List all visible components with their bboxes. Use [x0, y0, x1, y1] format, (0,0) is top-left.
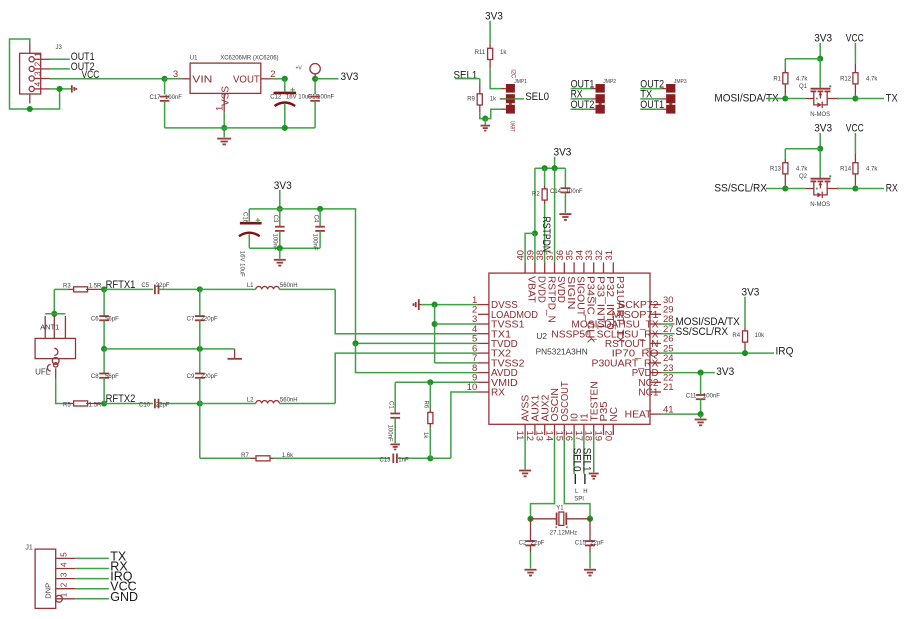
capacitor C3 100nF [279, 209, 281, 227]
junction SVDD drop [552, 165, 558, 171]
svg-text:L2: L2 [247, 397, 254, 403]
wire VCC from J3-3 to U1 VIN [50, 78, 165, 80]
junction C3 bottom [277, 245, 283, 251]
svg-text:1nF: 1nF [398, 457, 409, 463]
junction C10 right [197, 400, 203, 406]
capacitor C9 220pF [199, 349, 201, 374]
svg-text:14: 14 [544, 431, 555, 442]
ground mid row [234, 349, 236, 358]
svg-text:NC: NC [609, 407, 620, 421]
pin 37 SVDD [554, 262, 556, 273]
junction SEL1 pulldown [482, 116, 488, 122]
wire J3 pin4 to GND [50, 88, 72, 90]
svg-text:C9: C9 [187, 374, 195, 380]
svg-text:GND: GND [110, 590, 138, 604]
capacitor C11 100nF [700, 373, 702, 395]
junction crystal right [587, 516, 593, 522]
pin J1-4 RX [56, 568, 75, 570]
wire AVDD feed [356, 343, 479, 372]
wire R7 row left [200, 457, 250, 459]
jumper JMP1 [506, 84, 515, 114]
junction C3 top [277, 206, 283, 212]
svg-text:R12: R12 [840, 76, 852, 82]
svg-text:P31UART_TX: P31UART_TX [614, 276, 625, 343]
svg-text:3V3: 3V3 [341, 71, 359, 83]
svg-text:220pF: 220pF [201, 374, 218, 380]
svg-text:L1: L1 [247, 283, 254, 289]
svg-text:3: 3 [60, 572, 69, 577]
svg-text:16V 10uF: 16V 10uF [239, 251, 245, 277]
resistor R2 [544, 168, 546, 185]
svg-text:Q1: Q1 [799, 84, 808, 90]
wire RX to pin 10 [451, 392, 478, 458]
wire AVSS down [524, 435, 526, 469]
wire TX to JMP3-2 [640, 98, 662, 100]
svg-text:R9: R9 [467, 96, 475, 102]
pin 28 MOSISDAHSU_TX [650, 323, 661, 325]
svg-text:1k: 1k [490, 96, 497, 102]
svg-text:C12: C12 [270, 95, 282, 101]
svg-text:Q2: Q2 [799, 174, 808, 180]
junction crystal left [527, 516, 533, 522]
pin 30 SCKP72 [650, 304, 661, 306]
svg-text:3V3: 3V3 [274, 180, 292, 192]
svg-text:J3: J3 [56, 45, 63, 51]
svg-text:ANT1: ANT1 [40, 323, 59, 332]
svg-text:SVDD: SVDD [555, 276, 566, 303]
pin 9 VMID [478, 381, 489, 383]
svg-text:22pF: 22pF [156, 403, 170, 409]
svg-text:C17: C17 [149, 95, 161, 101]
svg-text:VBAT: VBAT [526, 276, 537, 303]
svg-text:3V3: 3V3 [716, 366, 734, 378]
svg-text:3V3: 3V3 [814, 33, 832, 45]
pin 5 TVDD [478, 342, 489, 344]
resistor R13 4.7k [784, 159, 786, 163]
wire 3V3 out [315, 78, 338, 80]
pin 10 RX [478, 391, 489, 393]
svg-text:R11: R11 [475, 50, 486, 56]
supply symbol 3V3 circle [310, 63, 320, 73]
wire OUT1 to JMP3-3 [640, 108, 662, 110]
wire RFTX1 to C5 [104, 288, 153, 290]
svg-text:100nF: 100nF [387, 425, 393, 442]
svg-text:P32_INT0: P32_INT0 [604, 276, 615, 330]
wire OUT1 to JMP2-1 [571, 88, 592, 90]
capacitor C8 56pF [103, 349, 105, 374]
junction left signal [782, 95, 788, 101]
pin 31 P31UART_TX [612, 262, 614, 273]
junction R2 top [542, 165, 548, 171]
ground TVSS (rotated) [418, 299, 420, 310]
svg-text:DNP: DNP [44, 583, 53, 599]
junction VMID [427, 379, 433, 385]
wire 3V3 down [554, 157, 556, 168]
svg-text:100nF: 100nF [566, 189, 583, 195]
svg-text:SPI: SPI [574, 496, 584, 502]
junction J3 pin4 [57, 86, 63, 92]
wire TX2 from L2 [335, 353, 478, 403]
svg-text:VCC: VCC [846, 33, 864, 45]
wire antenna top loop [53, 289, 55, 311]
wire signal across [785, 188, 806, 190]
wire HEAT pin 41 to ground [661, 413, 701, 415]
ground C15 [584, 569, 596, 571]
capacitor C10 22pF [154, 399, 156, 409]
svg-text:R2: R2 [532, 192, 540, 198]
junction VSS ground rail [221, 125, 227, 131]
junction left signal [782, 185, 788, 191]
resistor R1 4.7k [784, 69, 786, 73]
pin 39 DVDD [534, 262, 536, 273]
wire bottom rail [249, 247, 320, 249]
junction right signal [852, 185, 858, 191]
junction RX node bottom [427, 455, 433, 461]
resistor R12 4.7k [854, 63, 856, 72]
wire RFTX2 column down to R7 row [199, 404, 201, 459]
svg-text:RX: RX [886, 182, 898, 194]
svg-text:27.12MHz: 27.12MHz [550, 531, 577, 537]
svg-text:5: 5 [60, 552, 69, 557]
pin 12 AUX1 [534, 424, 536, 435]
pin 38 RSTPD_N [544, 262, 546, 273]
svg-text:C1: C1 [387, 401, 393, 409]
ground U1 VSS [223, 128, 225, 137]
svg-text:+V: +V [296, 65, 303, 71]
pin 36 SIGIN [563, 262, 565, 273]
pin 24 P30UART_RX [650, 362, 661, 364]
capacitor C12 16V 10uF electrolytic [284, 79, 286, 92]
svg-text:L: L [575, 489, 579, 495]
svg-text:1: 1 [34, 52, 43, 57]
svg-text:P33_INT1: P33_INT1 [594, 276, 605, 330]
svg-text:22pF: 22pF [531, 541, 545, 547]
wire SEL1 to R9 [455, 78, 480, 80]
svg-text:1.5R: 1.5R [89, 403, 102, 409]
svg-text:C10: C10 [139, 403, 151, 409]
resistor R11 1k [489, 44, 491, 48]
junction C5 right [197, 286, 203, 292]
wire OSCOUT to crystal [564, 435, 590, 519]
wire VMID corner to C1 [394, 382, 396, 413]
pin 32 P32_INT0 [603, 262, 605, 273]
capacitor C2 22pF [530, 519, 532, 541]
svg-text:SIGIN: SIGIN [565, 276, 576, 310]
svg-text:TX: TX [886, 92, 898, 104]
svg-text:UART: UART [509, 121, 516, 132]
IC U2 PN5321A3HN body [489, 273, 650, 424]
svg-text:UFL: UFL [35, 368, 51, 377]
junction mid row right [197, 346, 203, 352]
svg-text:C14: C14 [550, 189, 562, 195]
wire PVDD from pin 23 [661, 372, 715, 374]
resistor R7 1.6k [250, 457, 256, 459]
pin 14 OSCIN [554, 424, 556, 435]
wire OUT2 to JMP2-3 [571, 108, 592, 110]
wire 3V3 down to gate rail [819, 133, 821, 149]
pin J1-1 GND [56, 598, 75, 600]
wire OSCIN to crystal [531, 435, 555, 519]
svg-text:20: 20 [602, 431, 613, 442]
pin J1-5 TX [56, 557, 75, 559]
junction PVDD [698, 370, 704, 376]
svg-text:Y1: Y1 [556, 505, 564, 511]
svg-text:SEL0: SEL0 [525, 91, 549, 103]
svg-text:100nF: 100nF [703, 394, 720, 400]
wire TESTEN to ground [593, 435, 595, 472]
svg-text:100nF: 100nF [271, 234, 277, 251]
wire to TVSS2 [435, 362, 478, 364]
capacitor C1 100nF [390, 413, 400, 415]
svg-text:R4: R4 [732, 333, 740, 339]
svg-text:3: 3 [34, 71, 43, 76]
pin 8 AVDD [478, 372, 489, 374]
svg-text:SIGOUT: SIGOUT [575, 276, 586, 316]
resistor R14 4.7k [854, 153, 856, 162]
wire to L2 [200, 403, 256, 405]
ground R9 [484, 119, 486, 125]
svg-text:31: 31 [604, 250, 615, 261]
capacitor C7 220pF [199, 289, 201, 316]
pin 15 OSCOUT [563, 424, 565, 435]
junction RFTX1 [101, 286, 107, 292]
node MOSI/SDA/TX at pin 28 [661, 323, 675, 325]
transistor Q2 N-MOS [819, 149, 821, 178]
svg-text:C4: C4 [312, 215, 318, 223]
svg-text:J1: J1 [25, 545, 33, 552]
junction J3 bottom [27, 106, 33, 112]
svg-text:R3: R3 [63, 283, 71, 289]
pin 25 IP70_RQ [650, 352, 661, 354]
svg-text:N-MOS: N-MOS [810, 112, 830, 118]
wire J3 shield loop [10, 39, 60, 109]
capacitor C14 100nF [564, 168, 566, 188]
svg-text:2: 2 [34, 61, 43, 66]
svg-text:C6: C6 [91, 317, 99, 323]
svg-text:I2C: I2C [509, 69, 516, 78]
resistor R5 1.5R [68, 403, 74, 405]
junction right signal [852, 95, 858, 101]
transistor Q1 N-MOS [819, 59, 821, 88]
svg-text:3: 3 [173, 69, 178, 80]
wire RFTX2 to C10 [104, 403, 153, 405]
wire to L1 [200, 288, 256, 290]
wire signal left [766, 188, 785, 190]
pin 4 TX1 [478, 333, 489, 335]
pin 26 RSTOUT_N [650, 342, 661, 344]
wire VIN stub [165, 78, 182, 80]
wire VBAT DVDD feed [534, 168, 536, 233]
wire IRQ from J1 [75, 578, 109, 580]
svg-text:RX: RX [491, 388, 505, 399]
pin 23 PVDD [650, 372, 661, 374]
svg-text:11: 11 [514, 431, 525, 441]
pin J1-2 VCC [56, 588, 75, 590]
wire signal across [785, 98, 806, 100]
svg-text:U2: U2 [536, 331, 547, 341]
svg-text:IRQ: IRQ [776, 345, 794, 357]
svg-text:13: 13 [534, 431, 545, 442]
wire VOUT stub [261, 78, 271, 80]
svg-text:4.7k: 4.7k [866, 76, 878, 82]
junction 3V3 gate node [817, 146, 823, 152]
wire to pin 39 [534, 233, 536, 262]
node SS/SCL/RX at pin 27 [661, 333, 675, 335]
svg-text:RSTPDN: RSTPDN [540, 217, 552, 253]
wire junction to JMP1 pin3 [485, 109, 501, 118]
svg-text:SS/SCL/RX: SS/SCL/RX [676, 326, 729, 338]
svg-text:H: H [583, 489, 587, 495]
pin 13 AUX2 [544, 424, 546, 435]
svg-text:2: 2 [60, 582, 69, 587]
svg-text:22pF: 22pF [590, 541, 604, 547]
pin 27 NSSP50_SCLHSU_RX [650, 333, 661, 335]
wire 3V3 rail [249, 209, 355, 344]
wire TX from J1 [75, 557, 109, 559]
svg-text:VCC: VCC [82, 69, 100, 81]
svg-text:VSS: VSS [221, 86, 232, 106]
svg-text:R14: R14 [840, 166, 852, 172]
wire VMID [395, 381, 478, 383]
wire branch to R1 [785, 58, 820, 60]
svg-text:R7: R7 [241, 453, 249, 459]
svg-text:C15: C15 [575, 541, 587, 547]
wire GND from J1 [75, 598, 109, 600]
svg-text:C7: C7 [187, 317, 195, 323]
resistor R9 1k [479, 85, 481, 94]
svg-text:U1: U1 [190, 56, 198, 62]
wire SVDD feed to pin 37 [554, 168, 556, 262]
pin 21 NC1 [650, 391, 661, 393]
wire TVDD from 3V3 rail [356, 342, 479, 344]
pin 1 DVSS [478, 304, 489, 306]
svg-text:C5: C5 [141, 283, 149, 289]
junction IRQ [742, 350, 748, 356]
junction TVSS1 [432, 321, 438, 327]
junction HEAT ground [698, 411, 704, 417]
wire junction to RX riser [430, 457, 451, 459]
svg-text:OUT2: OUT2 [571, 99, 595, 111]
svg-text:1k: 1k [500, 50, 507, 56]
svg-text:4.7k: 4.7k [796, 166, 808, 172]
wire to pin 40 [525, 233, 535, 262]
svg-text:560nH: 560nH [280, 283, 298, 289]
pin 22 NC2 [650, 381, 661, 383]
wire to TVSS1 [435, 323, 478, 325]
svg-text:SEL1: SEL1 [454, 69, 478, 81]
junction TVDD [352, 340, 358, 346]
capacitor C13 1nF [392, 454, 394, 464]
junction DVSS [432, 302, 438, 308]
svg-text:100nF: 100nF [165, 95, 182, 101]
junction DVDD/VBAT [532, 230, 538, 236]
svg-text:VCC: VCC [846, 123, 864, 135]
svg-text:4.7k: 4.7k [866, 166, 878, 172]
wire supply rail above chip [535, 167, 566, 169]
wire IRQ from pin 25 [661, 352, 774, 354]
ground C14 [559, 213, 571, 215]
svg-text:DVDD: DVDD [536, 276, 547, 303]
ground AVSS [519, 470, 531, 472]
junction 3V3 gate node [817, 56, 823, 62]
inductor L2 560nH [256, 401, 280, 404]
svg-text:4.7k: 4.7k [796, 76, 808, 82]
svg-text:4: 4 [34, 81, 43, 86]
ground 3V3 rail [279, 248, 281, 258]
resistor R4 10k [744, 328, 746, 331]
wire ground rail under U1 [165, 127, 316, 129]
svg-text:1.5R: 1.5R [89, 283, 102, 289]
wire OUT1 from J3-1 [50, 58, 70, 60]
pin 7 TVSS2 [478, 362, 489, 364]
wire RX to JMP2-2 [571, 98, 592, 100]
wire 3V3 drop [279, 190, 281, 209]
capacitor C5 22pF [154, 285, 156, 295]
svg-text:JMP1: JMP1 [514, 79, 527, 85]
svg-text:SS/SCL/RX: SS/SCL/RX [714, 182, 767, 194]
pin 33 P33_INT1 [593, 262, 595, 273]
svg-text:XC6206MR (XC6206): XC6206MR (XC6206) [220, 56, 278, 62]
svg-text:R13: R13 [770, 166, 782, 172]
capacitor C15 22pF [589, 519, 591, 541]
pin J1-3 IRQ [56, 578, 75, 580]
pin 18 TESTEN [593, 424, 595, 435]
wire 3V3 to R11 [489, 21, 491, 44]
svg-text:56pF: 56pF [105, 317, 119, 323]
crystal Y1 27.12MHz [531, 518, 557, 520]
pin 1 indicator circle [56, 595, 63, 602]
wire signal right [855, 98, 884, 100]
svg-text:4: 4 [60, 562, 69, 567]
pin 16 I0 [573, 424, 575, 435]
regulator U1 XC6206MR body [190, 63, 261, 93]
svg-text:HEAT: HEAT [625, 410, 652, 421]
wire TX1 from L1 [335, 289, 478, 333]
connector ANT1 UFL [51, 311, 57, 317]
svg-text:3V3: 3V3 [814, 123, 832, 135]
wire 3V3 to R4 [744, 297, 746, 328]
pin 11 AVSS [524, 424, 526, 435]
svg-text:1k: 1k [422, 432, 428, 439]
svg-text:VOUT: VOUT [233, 74, 260, 85]
pin 2 LOADMOD [478, 313, 489, 315]
svg-text:C16: C16 [242, 212, 248, 224]
svg-text:C3: C3 [272, 215, 278, 223]
wire RX from J1 [75, 568, 109, 570]
wire UFL signal down [55, 368, 57, 379]
wire R9 to ground junction [480, 113, 486, 119]
pin 41 HEAT [650, 413, 661, 415]
ground HEAT/C11 [700, 414, 702, 418]
pin 40 VBAT [524, 262, 526, 273]
junction C12 bottom [282, 125, 288, 131]
capacitor C6 56pF [103, 289, 105, 316]
svg-text:JMP3: JMP3 [674, 79, 687, 85]
svg-text:3V3: 3V3 [485, 10, 503, 22]
wire VCC down to R12 [854, 43, 856, 63]
svg-text:PN5321A3HN: PN5321A3HN [536, 347, 588, 357]
wire vertical TVSS tie [434, 305, 436, 363]
svg-text:JMP2: JMP2 [603, 79, 616, 85]
pin 29 MISOP71 [650, 313, 661, 315]
svg-text:R6: R6 [423, 401, 429, 409]
pin 20 NC [612, 424, 614, 435]
svg-text:VIN: VIN [192, 74, 212, 85]
pin 3 TVSS1 [478, 323, 489, 325]
wire branch to R13 [785, 148, 820, 150]
wire U1 VSS pin to ground rail [223, 93, 225, 112]
pin 19 P35 [603, 424, 605, 435]
